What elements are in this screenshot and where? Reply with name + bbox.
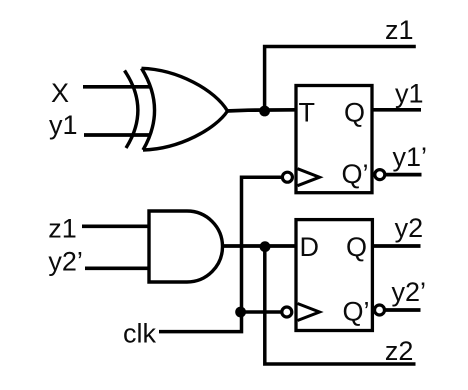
clock triangle U4: [298, 304, 320, 321]
wire z1 input: [82, 224, 150, 228]
wire clk: [159, 177, 281, 331]
svg-text:D: D: [300, 232, 320, 262]
svg-text:Q’: Q’: [342, 159, 369, 189]
svg-text:z2: z2: [385, 336, 414, 366]
flip-flop U4 box: [296, 220, 372, 331]
svg-text:clk: clk: [123, 318, 156, 348]
wire and output to D: [222, 244, 297, 248]
wire y2 output: [372, 244, 421, 248]
svg-text:z1: z1: [385, 15, 414, 45]
bubble Q' upper: [375, 170, 385, 180]
wire y1' output: [386, 173, 422, 177]
wire clk to lower ff: [242, 310, 282, 314]
svg-text:y2’: y2’: [48, 247, 83, 277]
flip-flop U3 box: [296, 86, 372, 193]
wire y2' output: [386, 308, 421, 312]
svg-text:y2: y2: [395, 213, 424, 243]
svg-text:X: X: [51, 78, 69, 108]
svg-text:z1: z1: [48, 214, 77, 244]
clock bubble U3: [282, 172, 292, 182]
svg-text:Q: Q: [346, 232, 367, 262]
wire xor output to T: [226, 110, 297, 111]
svg-text:Q: Q: [344, 98, 365, 128]
bubble Q' lower: [375, 305, 385, 315]
node junction z1: [259, 106, 270, 117]
node junction z2: [260, 241, 271, 252]
clock bubble U4: [282, 307, 292, 317]
svg-text:y1’: y1’: [393, 142, 428, 172]
svg-text:y2’: y2’: [392, 277, 427, 307]
wire y2' input: [85, 266, 150, 270]
svg-text:T: T: [299, 98, 316, 128]
svg-text:Q’: Q’: [343, 296, 370, 326]
clock triangle U3: [298, 169, 320, 186]
wire y1 input: [84, 133, 151, 137]
wire y1 output: [372, 108, 421, 112]
wire X input: [83, 85, 150, 89]
wire z2 branch: [265, 246, 416, 364]
wire z1 branch: [265, 47, 416, 110]
svg-text:y1: y1: [49, 110, 78, 140]
svg-text:y1: y1: [395, 79, 424, 109]
node junction clk: [235, 307, 246, 318]
and gate U2: [149, 211, 222, 282]
xor gate U1: [125, 68, 228, 150]
